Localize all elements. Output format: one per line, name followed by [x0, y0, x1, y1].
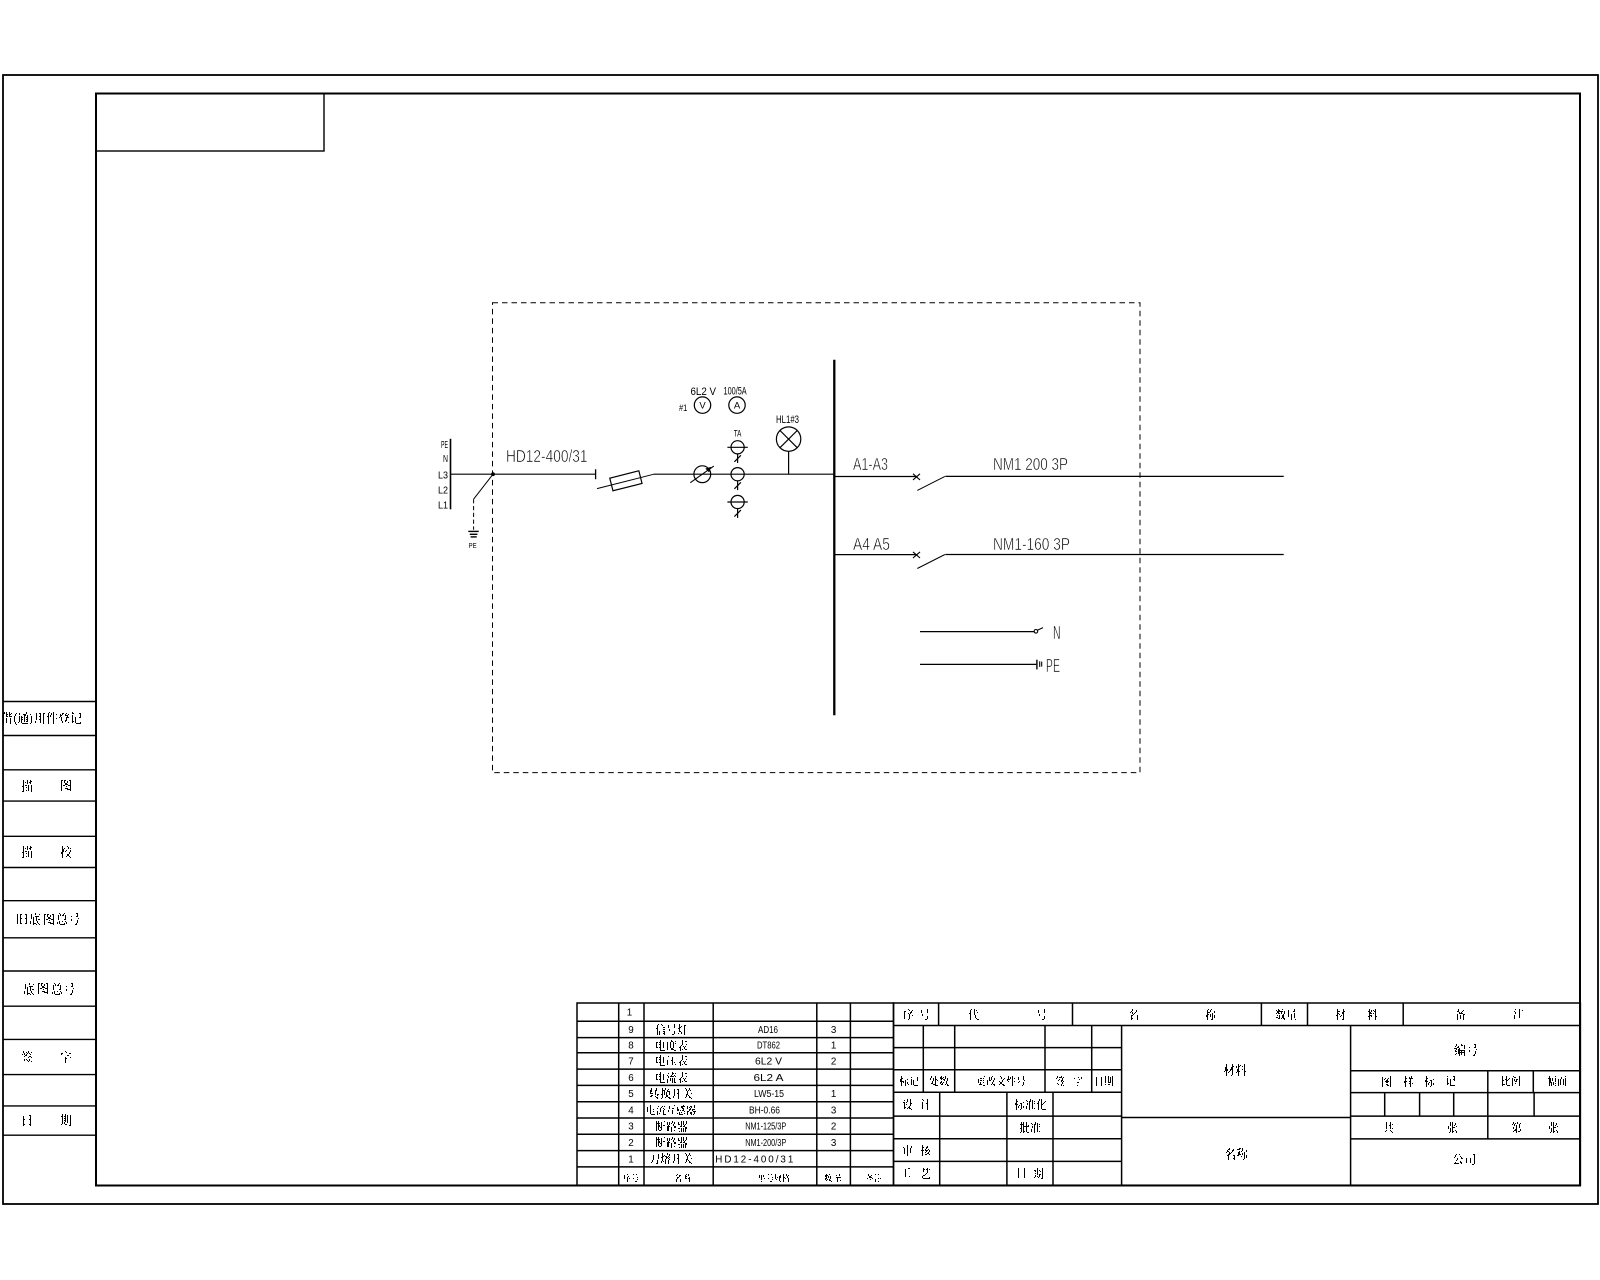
node: junction at enclosure entry — [491, 472, 495, 476]
svg-text:AD16: AD16 — [758, 1025, 778, 1036]
left margin strip boxes — [3, 702, 96, 1136]
svg-text:NM1 200 3P: NM1 200 3P — [993, 454, 1068, 474]
svg-text:100/5A: 100/5A — [724, 386, 748, 398]
svg-text:LW5-15: LW5-15 — [754, 1089, 784, 1100]
svg-text:7: 7 — [628, 1056, 633, 1067]
ammeter PA (100/5A) — [729, 397, 745, 413]
svg-text:DT862: DT862 — [757, 1041, 780, 1052]
changeover/adjust element S1 (circle with arrow) — [694, 466, 711, 483]
wire: feeder 1 outgoing — [945, 475, 1283, 477]
svg-text:1: 1 — [831, 1041, 836, 1052]
current transformer TA phase 2 (on line) — [731, 468, 744, 491]
breaker QF2 cross mark — [913, 552, 920, 558]
svg-text:2: 2 — [831, 1122, 836, 1133]
breaker QF1 blade — [917, 476, 945, 490]
svg-text:3: 3 — [831, 1025, 837, 1036]
breaker QF1 cross mark — [913, 474, 920, 480]
wire: feeder 2 outgoing — [945, 554, 1283, 556]
svg-text:1: 1 — [628, 1154, 633, 1165]
wire: feeder 2 from busbar — [834, 554, 917, 556]
left strip label: master no. — [24, 983, 34, 995]
svg-text:2: 2 — [628, 1138, 633, 1149]
svg-text:6: 6 — [628, 1073, 634, 1084]
svg-text:5: 5 — [628, 1089, 634, 1100]
current transformer TA phase 1 — [727, 441, 747, 463]
svg-text:2: 2 — [831, 1056, 836, 1067]
svg-text:L3: L3 — [438, 470, 448, 481]
knife-fuse switch QS1: fuse body FU — [610, 471, 642, 491]
knife-fuse switch QS1: blade — [597, 474, 653, 488]
svg-text:V: V — [699, 401, 706, 412]
svg-text:6L2 A: 6L2 A — [754, 1073, 785, 1084]
svg-text:6L2 V: 6L2 V — [755, 1056, 782, 1067]
voltmeter PV (6L2 V) — [694, 397, 710, 413]
title block grid — [894, 1003, 1581, 1185]
PE bar terminal — [1037, 660, 1042, 670]
svg-text:1: 1 — [831, 1089, 836, 1100]
wire: lamp lead — [788, 451, 790, 474]
svg-text:HD12-400/31: HD12-400/31 — [506, 446, 588, 466]
svg-text:#1: #1 — [679, 403, 687, 414]
svg-text:PE: PE — [469, 543, 477, 550]
svg-text:9: 9 — [628, 1025, 633, 1036]
protective earth bar PE — [920, 663, 1036, 665]
top-left accessory box — [96, 94, 324, 152]
svg-text:HD12-400/31: HD12-400/31 — [715, 1154, 793, 1165]
svg-text:3: 3 — [628, 1122, 634, 1133]
incoming terminal bar X0 — [450, 439, 452, 510]
N bar terminal — [1034, 630, 1038, 634]
svg-text:NM1-160 3P: NM1-160 3P — [993, 534, 1070, 554]
svg-text:PE: PE — [441, 440, 448, 451]
busbar W1 — [833, 360, 835, 716]
parts list table grid — [577, 1003, 894, 1185]
inner drawing frame — [96, 94, 1580, 1186]
left strip label: old master no. — [17, 914, 27, 924]
knife-fuse switch QS1: fixed contact — [595, 469, 597, 479]
svg-text:NM1-125/3P: NM1-125/3P — [745, 1122, 786, 1133]
svg-text:NM1-200/3P: NM1-200/3P — [745, 1138, 786, 1149]
breaker QF2 blade — [917, 555, 945, 569]
svg-text:N: N — [443, 454, 448, 465]
svg-text:8: 8 — [628, 1041, 634, 1052]
svg-text:6L2 V: 6L2 V — [691, 386, 717, 398]
svg-text:PE: PE — [1046, 656, 1060, 676]
wire: switch to busbar — [653, 473, 834, 475]
left strip label: trace check — [22, 846, 32, 858]
wire: incoming feed to knife switch — [451, 473, 596, 475]
left strip label: signature — [22, 1051, 32, 1062]
svg-text:BH-0.66: BH-0.66 — [749, 1105, 780, 1116]
svg-text:L2: L2 — [438, 485, 448, 496]
svg-text:A: A — [734, 401, 741, 412]
left strip label: date — [23, 1115, 31, 1126]
wire: earthing tail (dashed) — [473, 499, 475, 530]
svg-text:3: 3 — [831, 1105, 837, 1116]
svg-text:3: 3 — [831, 1138, 837, 1149]
wire: feeder 1 from busbar — [834, 476, 917, 478]
ground (earth electrode) — [468, 531, 478, 537]
current transformer TA phase 3 — [727, 495, 747, 518]
svg-text:A1-A3: A1-A3 — [853, 454, 888, 474]
left strip label: borrowed parts record — [2, 712, 81, 725]
title block texts — [904, 1009, 913, 1020]
svg-text:1: 1 — [627, 1008, 632, 1019]
svg-text:N: N — [1053, 623, 1061, 643]
left strip label: tracing — [22, 780, 32, 792]
svg-text:L1: L1 — [438, 501, 448, 512]
svg-text:A4 A5: A4 A5 — [853, 534, 890, 554]
indicator lamp HL1#3 — [776, 427, 800, 451]
enclosure dashed boundary — [493, 303, 1141, 773]
svg-text:4: 4 — [628, 1105, 634, 1116]
parts list header row — [624, 1174, 638, 1182]
svg-text:TA: TA — [734, 428, 742, 438]
wire: earthing tail (diagonal) — [474, 474, 493, 499]
neutral bar N — [920, 631, 1035, 633]
svg-text:HL1#3: HL1#3 — [776, 414, 799, 426]
